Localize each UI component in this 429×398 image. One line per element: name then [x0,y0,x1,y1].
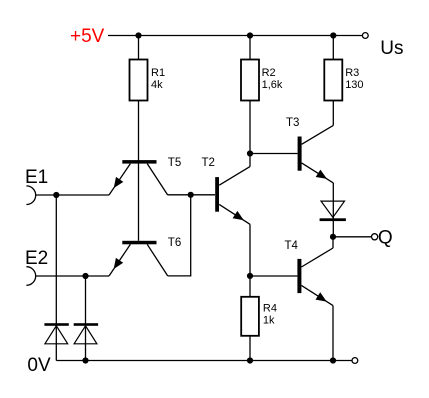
junction rail-R3 [330,32,336,38]
wire T5 collector [147,164,168,195]
svg-text:R2: R2 [262,67,276,79]
junction rail-T4 [330,357,336,363]
wire T4 emitter [301,285,333,305]
wire Q [333,236,371,238]
junction node B [247,150,253,156]
wire T4 collector riser [332,237,334,248]
svg-text:R4: R4 [263,302,277,314]
transistor T3 [298,137,302,171]
wire T5 emitter [109,164,130,195]
svg-text:+5V: +5V [70,26,105,47]
junction T2e-R4 [247,273,253,279]
junction rail-R2 [247,32,253,38]
svg-text:T6: T6 [168,237,181,249]
wire 0V rail [56,360,352,362]
wire R1 to bases [138,101,140,241]
svg-text:T4: T4 [285,240,299,252]
wire T3 emitter drop [332,183,334,237]
junction T2 base [188,192,194,198]
wire T6 collector [147,244,168,276]
wire T3 base [250,153,298,155]
resistor R1 [130,60,148,101]
wire T6 riser [190,195,192,277]
svg-text:T2: T2 [202,157,215,169]
svg-text:Q: Q [378,228,393,249]
wire T2 base [168,194,215,196]
wire E2 [36,275,109,277]
wire D1 top [55,195,57,361]
svg-text:1,6k: 1,6k [262,79,283,91]
wire R4 bottom [249,336,251,361]
diode D3 [321,201,345,217]
junction rail-R1 [135,32,141,38]
wire +5V rail [108,35,362,37]
transistor T4 [297,259,301,293]
resistor R4 [241,297,259,336]
svg-text:R3: R3 [345,67,359,79]
wire R3 top [332,36,334,60]
wire T2 collector riser [249,154,251,167]
svg-text:T3: T3 [286,117,299,129]
terminal Q [372,234,378,240]
terminal E1 [26,186,35,205]
resistor R3 [324,60,342,101]
junction E1-D1 [53,192,59,198]
svg-text:0V: 0V [27,355,51,376]
wire T3 emitter [302,163,334,183]
terminal Us [362,33,368,39]
svg-text:R1: R1 [151,67,165,79]
svg-text:4k: 4k [151,79,163,91]
terminal 0V [352,358,358,364]
wire R1 top [138,36,140,60]
wire R4 top [249,276,251,297]
svg-text:E2: E2 [25,248,48,269]
wire T2 emitter [219,204,250,224]
wire R2 top [249,36,251,60]
wire E1 [36,194,109,196]
junction Q node [330,234,336,240]
junction rail-R4 [247,357,253,363]
svg-text:T5: T5 [168,157,181,169]
diode D1 [44,323,68,326]
wire D2 top [85,276,87,361]
diode D2 [74,323,98,326]
junction rail-D2 [82,357,88,363]
wire R3 bottom [332,101,334,126]
wire T6 collector to bus [168,275,191,277]
transistor T2 [215,177,219,212]
wire R2 bottom [249,101,251,154]
wire T4 collector [301,248,333,267]
wire T4 emitter drop [332,306,334,361]
transistor T6 [122,241,156,245]
wire T3 collector [302,125,334,144]
junction E2-D2 [82,273,88,279]
wire T2 emitter drop [249,224,251,276]
svg-text:E1: E1 [25,167,48,188]
svg-text:130: 130 [345,79,363,91]
transistor T5 [122,160,156,164]
resistor R2 [241,60,259,101]
terminal E2 [26,267,35,286]
wire T4 base [250,275,297,277]
wire T6 emitter [109,244,130,276]
wire T2 collector [219,167,250,186]
svg-text:Us: Us [380,38,403,59]
svg-text:1k: 1k [263,314,275,326]
